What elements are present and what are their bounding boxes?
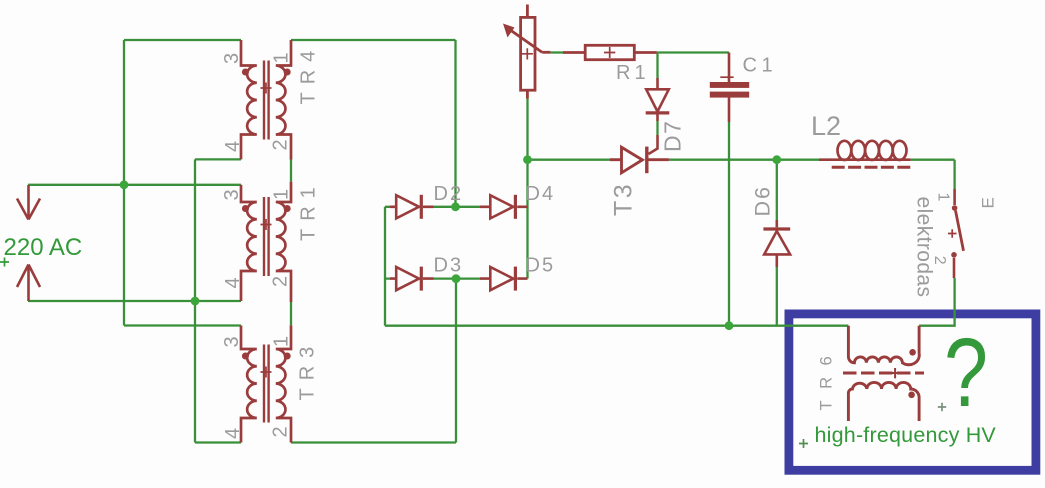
transformer TR3 xyxy=(241,325,291,442)
wire 220AC bottom horizontal y=301 xyxy=(28,300,241,302)
source 220AC bottom arrow xyxy=(17,265,40,302)
svg-text:E: E xyxy=(979,197,998,208)
diode D7 xyxy=(646,78,670,154)
svg-text:TR6: TR6 xyxy=(817,345,835,411)
svg-text:C1: C1 xyxy=(743,55,778,77)
wire top-left horizontal (TR4 pin3 to left bus) xyxy=(124,39,241,41)
diode D6 xyxy=(763,220,790,267)
resistor R1 xyxy=(563,45,657,59)
svg-text:D4: D4 xyxy=(526,183,556,205)
plus tick near 220 AC xyxy=(0,258,9,267)
svg-text:1: 1 xyxy=(935,193,952,202)
svg-text:2: 2 xyxy=(270,276,292,287)
svg-text:1: 1 xyxy=(271,336,293,347)
wire R1 to C1 top y=52.5 xyxy=(657,51,729,53)
svg-text:high-frequency HV: high-frequency HV xyxy=(815,423,997,447)
wire top-right horizontal TR4 pin1 to bridge xyxy=(291,39,456,41)
junction node D2/D4 (455.5,206.8) xyxy=(451,202,460,211)
wire link TR1 pin2 to TR3 pin1 xyxy=(290,302,292,325)
wire right vertical x=455.5 down to D2/D4 node xyxy=(454,40,456,207)
switch E pin2 lead xyxy=(953,258,956,278)
svg-text:1: 1 xyxy=(271,52,293,63)
wire D2 row segments xyxy=(385,206,480,208)
potentiometer body xyxy=(508,5,550,99)
svg-text:D7: D7 xyxy=(660,120,686,152)
svg-text:2: 2 xyxy=(270,139,292,150)
junction node C1/bus (729,325.7) xyxy=(725,321,734,330)
svg-text:4: 4 xyxy=(222,428,244,439)
wire link TR4 pin2 to TR1 pin1 xyxy=(290,160,292,182)
transformer TR1 xyxy=(241,182,291,302)
svg-text:TR3: TR3 xyxy=(296,339,318,401)
wire D6 upper stub xyxy=(776,160,778,220)
wire TR4 pin4 jog to x=195 xyxy=(195,158,241,160)
source 220AC top arrow xyxy=(17,185,40,220)
wire bridge left vertical x=385 xyxy=(384,207,386,326)
svg-text:D6: D6 xyxy=(751,185,775,216)
wire switch bottom to TR6 right lead xyxy=(919,278,955,326)
switch E plus mark xyxy=(948,229,957,238)
wire D3 row segments xyxy=(385,277,480,279)
wire 220AC top horizontal y=185 xyxy=(28,184,241,186)
svg-text:T3: T3 xyxy=(610,182,638,216)
svg-text:3: 3 xyxy=(221,53,243,64)
svg-text:?: ? xyxy=(944,318,988,427)
svg-text:D3: D3 xyxy=(434,255,464,277)
wire vertical x=456 up to D3/D5 node xyxy=(455,279,457,443)
wire main bus y=159.7 T3 to L2 xyxy=(669,159,819,161)
svg-text:2: 2 xyxy=(270,426,292,437)
wire pot wiper to R1 xyxy=(550,51,563,53)
wire TR3 pin3 horizontal y=325.5 xyxy=(124,324,241,326)
wire D7 branch vertical xyxy=(656,53,658,136)
svg-text:R1: R1 xyxy=(616,62,650,84)
diode D5 xyxy=(480,267,528,291)
wire bottom bus y=325.7 xyxy=(385,325,848,327)
wire bridge output vertical x=527.5 xyxy=(526,99,528,279)
switch E blade xyxy=(956,211,964,251)
wire left vertical bus x=124 xyxy=(123,40,125,326)
junction node bridge+pot (527.5,159.7) xyxy=(523,155,532,164)
wire main bus y=159.7 left of T3 xyxy=(528,159,611,161)
potentiometer wiper arrowhead xyxy=(503,24,515,38)
junction node at (195,301) xyxy=(191,297,200,306)
switch E pin1 lead xyxy=(953,189,956,205)
junction node D3/D5 (456,278.6) xyxy=(452,274,461,283)
svg-text:TR4: TR4 xyxy=(298,43,320,105)
diode D2 xyxy=(390,195,434,219)
junction node at (124,185) xyxy=(120,180,129,189)
inductor L2 xyxy=(819,141,911,168)
svg-text:D5: D5 xyxy=(526,255,556,277)
wire TR3 pin4 to bus y=442.5 xyxy=(195,441,241,443)
svg-text:3: 3 xyxy=(221,189,243,200)
diode D4 xyxy=(480,195,528,219)
svg-text:1: 1 xyxy=(271,189,293,200)
plus mark before caption xyxy=(799,439,808,448)
svg-text:D2: D2 xyxy=(434,183,464,205)
svg-text:220 AC: 220 AC xyxy=(4,234,83,261)
switch E terminal 2 xyxy=(951,252,957,258)
svg-text:3: 3 xyxy=(221,336,243,347)
thyristor T3 xyxy=(610,147,669,174)
diode D3 xyxy=(390,267,434,291)
transformer TR6 xyxy=(843,326,924,421)
capacitor C1 xyxy=(710,53,749,123)
switch E terminal 1 xyxy=(952,205,958,211)
wire vertical bus x=195 (pin4 net) xyxy=(194,159,196,442)
plus mark near TR6 secondary xyxy=(938,403,946,411)
wire main bus y=159.7 L2 to switch corner xyxy=(911,160,955,189)
junction node D6 tap (776.8,159.7) xyxy=(772,155,781,164)
wire C1 bottom vertical to bus xyxy=(728,122,730,326)
svg-text:TR1: TR1 xyxy=(298,179,320,241)
svg-text:4: 4 xyxy=(222,277,244,288)
blue highlight box xyxy=(789,314,1036,470)
svg-text:elektrodas: elektrodas xyxy=(913,197,936,298)
wire TR3 pin2 horizontal y=442.5 xyxy=(291,441,456,443)
wire D6 lower stub xyxy=(776,267,778,326)
svg-text:4: 4 xyxy=(222,141,244,152)
transformer TR4 xyxy=(241,40,291,160)
svg-text:L2: L2 xyxy=(811,111,841,141)
